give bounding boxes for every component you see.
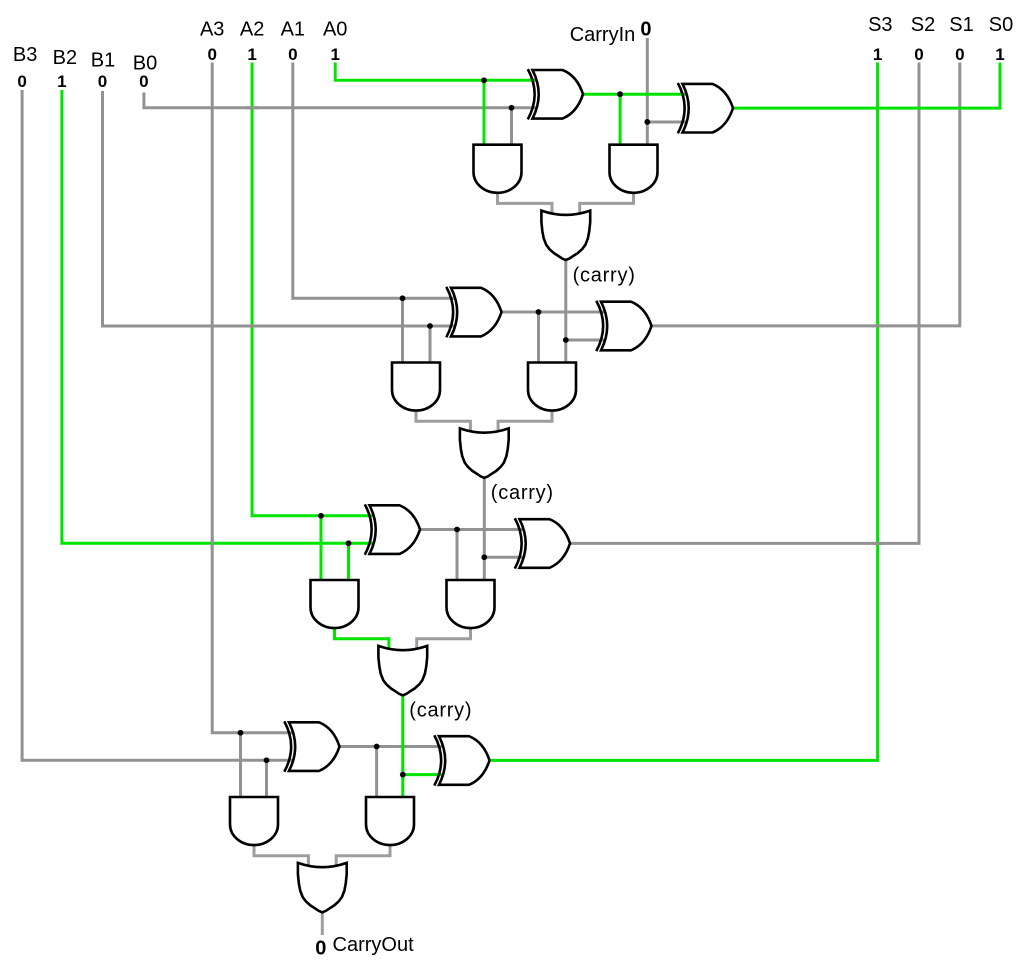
and-gate U4 (A0 AND B0) — [474, 145, 522, 193]
wire input B2 high (green, to stage-3 XOR) — [62, 90, 374, 543]
svg-text:0: 0 — [207, 45, 216, 64]
svg-text:1: 1 — [57, 72, 66, 91]
wire S2 segment crossing over S3 wire — [871, 542, 884, 545]
wire XOR U6 output tap down to AND U8 left input — [537, 312, 540, 363]
svg-text:S0: S0 — [989, 14, 1013, 36]
or-gate U20 (carry out of stage 4) — [298, 863, 347, 912]
wire XOR U11 output tap down to AND U13 left input — [456, 530, 459, 581]
svg-text:(carry): (carry) — [573, 264, 636, 286]
wire input B3 (vertical then horizontal to stage-4 XOR) — [22, 90, 293, 760]
and-gate U3 (xor AND carry) — [610, 145, 658, 193]
xor-gate U16 (A3 XOR B3) — [284, 721, 339, 771]
xor-gate U2 (sum S0) — [678, 83, 733, 133]
wire S1 segment crossing over S3 wire — [871, 324, 884, 327]
svg-text:0: 0 — [914, 45, 923, 64]
wire input A0 high (green, to stage-1 XOR) — [335, 63, 537, 81]
svg-text:CarryOut: CarryOut — [333, 934, 415, 956]
xor-gate U7 (sum S1) — [596, 301, 651, 351]
wire S3 output net high (green, XOR U17 output up to S3 label) — [490, 63, 878, 761]
wire carry1 from OR U5 down to stage-2 AND U8 input — [564, 260, 567, 363]
wire XOR U1 output to XOR U2 input (green) — [583, 93, 688, 96]
wire XOR U11 output to XOR U12 input — [420, 528, 525, 531]
junction XOR U16 output tap — [374, 744, 380, 750]
or-gate U5 (carry out of stage 1) — [541, 211, 590, 260]
or-gate U15 (carry out of stage 3) — [378, 646, 427, 695]
svg-text:B1: B1 — [91, 49, 115, 71]
wire AND U19 output jog to OR U20 left input — [254, 846, 308, 869]
wire A3 tap down to AND U19 left input — [239, 733, 242, 797]
junction B3 tap — [264, 757, 270, 763]
junction XOR U6 output tap — [536, 309, 542, 315]
wire CarryIn tap to XOR U2 lower input — [647, 120, 687, 123]
junction XOR U1 output tap — [617, 91, 623, 97]
svg-text:1: 1 — [247, 45, 256, 64]
xor-gate U11 (A2 XOR B2) — [365, 504, 420, 554]
wire A2 tap down to AND U14 left input (green) — [320, 516, 323, 580]
and-gate U13 (xor AND carry) — [447, 580, 495, 628]
svg-text:0: 0 — [640, 18, 651, 40]
junction carry2 tap — [481, 554, 487, 560]
svg-text:0: 0 — [98, 72, 107, 91]
junction A2 tap — [318, 513, 324, 519]
wire input A3 (vertical then horizontal to stage-4 XOR) — [212, 63, 293, 733]
wire A3 segment crossing over B2 wire — [211, 538, 214, 550]
svg-text:0: 0 — [17, 72, 26, 91]
and-gate U18 (xor AND carry) — [366, 797, 414, 845]
wire B1 tap down to AND U9 right input — [429, 326, 432, 363]
wire B0 tap down to AND U4 right input — [510, 108, 513, 145]
wire input B0 (vertical then horizontal to stage-1 XOR) — [144, 93, 537, 108]
wire XOR U6 output to XOR U7 input — [502, 311, 607, 314]
wire carry2 tap to stage-3 XOR U12 lower input — [484, 556, 525, 559]
svg-text:S3: S3 — [868, 14, 892, 36]
wire CarryOut from OR U20 output — [321, 912, 324, 935]
wire input A2 high (green, to stage-3 XOR) — [252, 63, 374, 516]
wire carry2 from OR U10 down to stage-3 AND U13 input — [483, 478, 486, 580]
xor-gate U6 (A1 XOR B1) — [446, 287, 501, 337]
junction CarryIn tap — [644, 119, 650, 125]
xor-gate U1 (A0 XOR B0) — [528, 69, 583, 119]
junction B1 tap — [427, 323, 433, 329]
wire CarryIn vertical down to AND gate U3 input — [646, 38, 649, 145]
svg-text:B3: B3 — [13, 44, 37, 66]
wire AND U14 output jog to OR U15 left input (green) — [335, 629, 389, 652]
junction A3 tap — [238, 730, 244, 736]
wire A0 tap down to AND U4 left input (green) — [483, 80, 486, 144]
and-gate U19 (A3 AND B3) — [230, 797, 278, 845]
svg-text:S2: S2 — [911, 14, 935, 36]
wire S2 output net (vertical from S2 label down, left to stage-3 XOR output) — [570, 63, 919, 544]
svg-text:B2: B2 — [53, 47, 77, 69]
svg-text:1: 1 — [330, 45, 339, 64]
xor-gate U12 (sum S2) — [515, 518, 570, 568]
wire A1 tap down to AND U9 left input — [401, 298, 404, 362]
wire S0 output net high (green, XOR U2 output up to S0 label) — [733, 63, 1000, 109]
and-gate U9 (A1 AND B1) — [392, 363, 440, 411]
wire XOR U16 output tap down to AND U18 left input — [375, 747, 378, 798]
svg-text:A0: A0 — [323, 19, 347, 41]
wire B2 tap down to AND U14 right input (green) — [347, 543, 350, 580]
svg-text:A2: A2 — [240, 19, 264, 41]
svg-text:CarryIn: CarryIn — [570, 24, 636, 46]
svg-text:0: 0 — [955, 45, 964, 64]
junction carry1 tap — [563, 337, 569, 343]
svg-text:S1: S1 — [949, 14, 973, 36]
svg-text:0: 0 — [315, 938, 326, 960]
wire B3 tap down to AND U19 right input — [265, 760, 268, 797]
wire carry3 tap to stage-4 XOR U17 lower input (green) — [403, 773, 445, 776]
xor-gate U17 (sum S3) — [434, 735, 489, 785]
wire XOR U16 output to XOR U17 input — [340, 745, 445, 748]
and-gate U8 (xor AND carry) — [528, 363, 576, 411]
svg-text:1: 1 — [995, 45, 1004, 64]
wire B1 segment crossing over A2 wire — [246, 325, 259, 328]
svg-text:1: 1 — [873, 45, 882, 64]
wire carry1 tap to stage-2 XOR U7 lower input — [566, 339, 607, 342]
svg-text:0: 0 — [288, 45, 297, 64]
wire AND U18 output jog to OR U20 right input — [336, 846, 390, 869]
junction B0 tap — [509, 105, 515, 111]
wire AND U9 output jog to OR U10 left input — [416, 411, 470, 434]
and-gate U14 (A2 AND B2) — [311, 580, 359, 628]
wire XOR U1 output tap down to AND U3 left input (green) — [619, 94, 622, 145]
wire AND U13 output jog to OR U15 right input — [417, 629, 471, 652]
junction B2 tap — [346, 540, 352, 546]
wire S1 output net (vertical from S1 label down, left to stage-2 XOR output) — [652, 63, 960, 326]
wire AND U4 output jog to OR U5 left input — [498, 193, 553, 216]
junction carry3 tap — [400, 772, 406, 778]
wire input A1 (vertical then horizontal to stage-2 XOR) — [293, 63, 456, 299]
wire AND U3 output jog to OR U5 right input — [580, 193, 634, 216]
or-gate U10 (carry out of stage 2) — [460, 428, 509, 477]
junction A1 tap — [400, 295, 406, 301]
junction A0 tap — [481, 77, 487, 83]
svg-text:0: 0 — [139, 72, 148, 91]
wire AND U8 output jog to OR U10 right input — [498, 411, 552, 434]
svg-text:(carry): (carry) — [491, 482, 554, 504]
wire carry3 high from OR U15 down to stage-4 AND U18 input (green) — [401, 695, 404, 797]
junction XOR U11 output tap — [454, 527, 460, 533]
wire B0 segment crossing over A2 wire — [246, 106, 259, 109]
wire input B1 (vertical then horizontal to stage-2 XOR) — [103, 91, 456, 326]
svg-text:(carry): (carry) — [409, 699, 472, 721]
svg-text:A1: A1 — [281, 19, 305, 41]
svg-text:A3: A3 — [200, 19, 224, 41]
